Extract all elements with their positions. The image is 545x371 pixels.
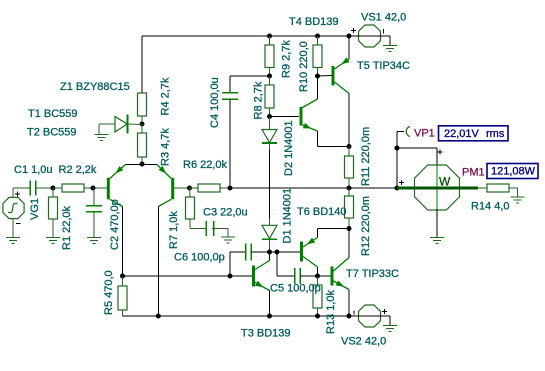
svg-text:PM1: PM1	[462, 167, 485, 179]
svg-text:R6 22,0k: R6 22,0k	[183, 159, 228, 171]
capacitor C4	[222, 76, 270, 188]
node R9 top	[267, 34, 272, 39]
label R12 220,0m	[360, 196, 372, 256]
resistor R8	[265, 76, 274, 116]
node zener junction	[140, 122, 145, 127]
resistor R10	[313, 36, 322, 76]
ground under VG1	[6, 238, 20, 244]
wire T6 collector	[317, 267, 319, 276]
wire output line	[230, 187, 397, 189]
ground under R1	[46, 238, 60, 244]
node VS2 junction	[347, 314, 352, 319]
label Z1 BZY88C15	[60, 81, 130, 93]
node T5 base junction	[315, 74, 320, 79]
ground at PM1	[430, 238, 444, 244]
resistor R3	[138, 124, 147, 164]
wire T2 base	[174, 187, 189, 189]
wire wattmeter voltage lead	[397, 148, 443, 166]
wire T6 emitter	[318, 229, 350, 238]
wire T3 base line	[123, 275, 253, 277]
readout box VP1	[439, 126, 509, 141]
svg-text:R12 220,0m: R12 220,0m	[360, 196, 372, 256]
resistor R9	[265, 36, 274, 76]
ground under C2	[87, 238, 101, 244]
wire T4 base	[270, 116, 300, 118]
resistor R1	[49, 188, 58, 238]
wire T3 collector	[269, 253, 271, 261]
svg-text:R9 2,7k: R9 2,7k	[281, 40, 293, 78]
resistor R4	[138, 93, 147, 124]
node T1 collector junction	[120, 274, 125, 279]
svg-text:rms: rms	[486, 128, 505, 140]
node C6 branch junction	[228, 274, 233, 279]
node C5 branch junction	[275, 250, 280, 255]
ground at R14	[511, 197, 525, 203]
svg-text:R3 4,7k: R3 4,7k	[160, 128, 172, 166]
svg-text:VP1: VP1	[414, 128, 435, 140]
resistor R14	[478, 184, 518, 197]
svg-text:R14 4,0: R14 4,0	[471, 201, 510, 213]
voltage generator VG1	[3, 188, 24, 238]
svg-text:VS1 42,0: VS1 42,0	[361, 12, 406, 24]
wire T7 base	[318, 275, 331, 277]
label R5 470,0	[103, 270, 115, 315]
voltage source VS2	[349, 305, 390, 327]
voltage pin VP1	[406, 127, 410, 137]
label D1 1N4001	[282, 188, 294, 244]
svg-text:C2 470,0p: C2 470,0p	[109, 199, 121, 250]
capacitor C2	[86, 188, 102, 238]
label D2 1N4001	[283, 120, 295, 176]
wire emitter rail	[126, 164, 158, 166]
label R11 220,0m	[360, 127, 372, 186]
svg-text:D1 1N4001: D1 1N4001	[282, 188, 294, 244]
wire T7 collector	[348, 229, 350, 258]
wire T7 emitter	[348, 290, 350, 317]
ground at C3	[221, 237, 235, 243]
wire T4 emitter	[318, 131, 350, 147]
label C4 100,0u	[209, 77, 221, 128]
node R12 bottom junction	[347, 226, 352, 231]
node R2 right junction	[91, 186, 96, 191]
svg-text:C3 22,0u: C3 22,0u	[203, 207, 248, 219]
svg-text:R7 1,0k: R7 1,0k	[168, 211, 180, 249]
label R6 22,0k	[183, 159, 228, 171]
svg-text:T5 TIP34C: T5 TIP34C	[357, 60, 410, 72]
label R2 2,2k	[59, 164, 97, 176]
readout box PM1	[487, 164, 538, 179]
svg-text:T3 BD139: T3 BD139	[241, 328, 291, 340]
label VG1	[29, 198, 41, 220]
resistor R12	[345, 188, 354, 229]
wire T3 emitter	[269, 291, 271, 317]
svg-text:C6 100,0p: C6 100,0p	[174, 252, 225, 264]
node T2 base junction	[187, 186, 192, 191]
transistor T7	[332, 258, 349, 290]
transistor T3	[254, 261, 270, 291]
node T4 emitter junction	[347, 144, 352, 149]
capacitor C3	[190, 221, 228, 237]
transistor T5	[333, 57, 350, 93]
resistor R7	[186, 188, 195, 229]
label T2 BC559	[27, 127, 77, 139]
label R8 2,7k	[253, 81, 265, 119]
capacitor C6	[230, 244, 270, 277]
svg-text:T4 BD139: T4 BD139	[289, 16, 339, 28]
transistor T6	[302, 238, 318, 268]
wire T5 emitter	[348, 36, 350, 59]
node R6 right junction	[228, 186, 233, 191]
ground at Z1	[95, 135, 109, 141]
node diff pair emitters	[140, 162, 145, 167]
capacitor C5	[277, 252, 318, 284]
label R1 22,0k	[61, 205, 73, 250]
svg-text:R1 22,0k: R1 22,0k	[61, 205, 73, 250]
wire T4 collector	[317, 76, 319, 99]
label C3 22,0u	[203, 207, 248, 219]
label T4 BD139	[289, 16, 339, 28]
resistor R5	[118, 276, 127, 316]
wire D1 to C5 branch	[270, 251, 278, 253]
wire T2 collector	[157, 207, 159, 317]
svg-text:22,01V: 22,01V	[444, 128, 480, 140]
label R13 1,0k	[325, 289, 337, 334]
label R4 2,7k	[160, 77, 172, 115]
ground at VS1	[383, 46, 397, 52]
wire bottom rail	[123, 315, 350, 317]
label C6 100,0p	[174, 252, 225, 264]
label VS2 42,0	[341, 336, 386, 348]
voltage source VS1	[349, 25, 390, 47]
node D1 T3 junction	[267, 250, 272, 255]
label R7 1,0k	[168, 211, 180, 249]
node T4 base junction	[267, 114, 272, 119]
label C5 100,0p	[270, 283, 321, 295]
svg-text:C5 100,0p: C5 100,0p	[270, 283, 321, 295]
svg-text:Z1 BZY88C15: Z1 BZY88C15	[60, 81, 130, 93]
label C2 470,0p	[109, 199, 121, 250]
label R14 4,0	[471, 201, 510, 213]
wattmeter PM1	[397, 165, 478, 237]
resistor R2	[53, 184, 109, 192]
node R9 R8 junction	[267, 74, 272, 79]
node output R11 R12	[347, 186, 352, 191]
svg-text:R4 2,7k: R4 2,7k	[160, 77, 172, 115]
svg-text:D2 1N4001: D2 1N4001	[283, 120, 295, 176]
label VP1	[414, 128, 435, 140]
node R10 top	[315, 34, 320, 39]
label PM1	[462, 167, 485, 179]
node input junction	[51, 186, 56, 191]
diode D2	[262, 117, 277, 151]
wire D2 to D1	[269, 150, 271, 218]
label T7 TIP33C	[346, 268, 399, 280]
svg-text:T1 BC559: T1 BC559	[28, 108, 78, 120]
wire T6 base	[277, 251, 300, 253]
svg-text:VG1: VG1	[29, 198, 41, 220]
wire top rail	[142, 36, 349, 93]
node output meter junction	[395, 186, 400, 191]
svg-text:R8 2,7k: R8 2,7k	[253, 81, 265, 119]
capacitor C1	[30, 181, 53, 196]
node VP1 tee	[395, 146, 400, 151]
svg-text:VS2 42,0: VS2 42,0	[341, 336, 386, 348]
label W wattmeter symbol	[439, 174, 451, 188]
svg-text:C4 100,0u: C4 100,0u	[209, 77, 221, 128]
svg-text:T2 BC559: T2 BC559	[27, 127, 77, 139]
wire T1 collector	[122, 207, 124, 277]
svg-text:R5 470,0: R5 470,0	[103, 270, 115, 315]
label VS1 42,0	[361, 12, 406, 24]
svg-text:R10 220,0: R10 220,0	[298, 41, 310, 92]
transistor T4	[301, 99, 318, 131]
resistor R6	[190, 184, 231, 192]
resistor R11	[345, 147, 354, 189]
resistor R13	[313, 276, 322, 316]
zener diode Z1	[99, 115, 142, 135]
label R9 2,7k	[281, 40, 293, 78]
svg-text:T7 TIP33C: T7 TIP33C	[346, 268, 399, 280]
svg-text:W: W	[439, 174, 451, 188]
svg-text:T6 BD140: T6 BD140	[297, 206, 347, 218]
node VS1 tee	[347, 34, 352, 39]
label C1 1,0u	[14, 164, 53, 176]
wire VG1 to C1	[13, 187, 30, 189]
node T3 emitter bottom	[267, 314, 272, 319]
svg-text:R13 1,0k: R13 1,0k	[325, 289, 337, 334]
wire T5 base	[318, 75, 332, 78]
wire T5 collector	[348, 94, 350, 147]
transistor T2	[157, 165, 173, 207]
transistor T1	[108, 165, 125, 207]
label R3 4,7k	[160, 128, 172, 166]
svg-text:R2 2,2k: R2 2,2k	[59, 164, 97, 176]
ground at VS2	[383, 326, 397, 332]
label T5 TIP34C	[357, 60, 410, 72]
node T2 collector bottom	[156, 314, 161, 319]
label T6 BD140	[297, 206, 347, 218]
node R13 bottom	[315, 314, 320, 319]
label T3 BD139	[241, 328, 291, 340]
svg-text:C1 1,0u: C1 1,0u	[14, 164, 53, 176]
wire VP1 branch	[397, 132, 404, 189]
node T7 base junction	[315, 274, 320, 279]
svg-text:R11 220,0m: R11 220,0m	[360, 127, 372, 186]
label R10 220,0	[298, 41, 310, 92]
diode D1	[262, 218, 277, 252]
svg-text:121,08W: 121,08W	[491, 166, 536, 178]
label T1 BC559	[28, 108, 78, 120]
